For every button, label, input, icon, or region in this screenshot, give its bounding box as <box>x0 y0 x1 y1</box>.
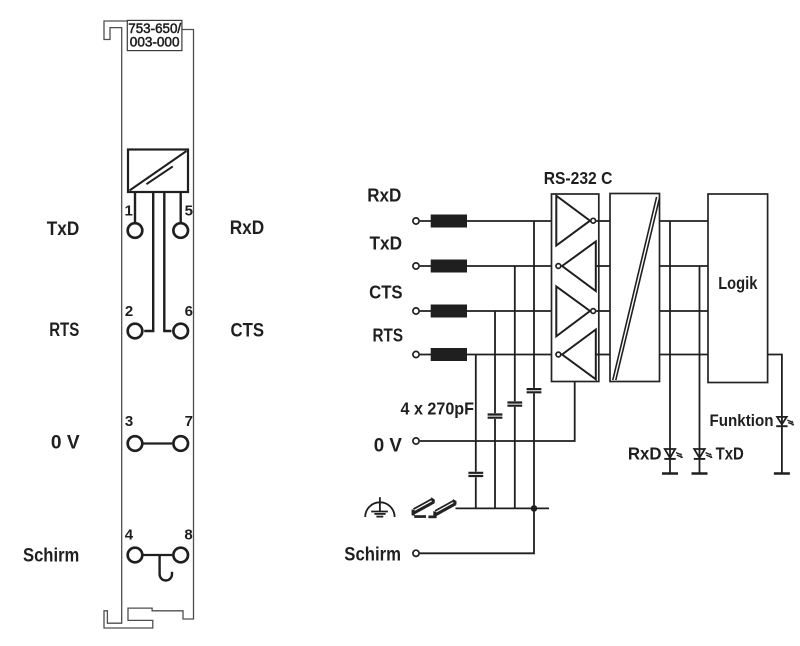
pin 4 <box>128 548 143 563</box>
capacitor C2 <box>507 403 522 406</box>
svg-text:RTS: RTS <box>49 320 79 341</box>
svg-text:RxD: RxD <box>628 444 662 464</box>
wire stem to pin6 <box>164 192 171 331</box>
transformer diagonal short <box>146 166 172 184</box>
isolation diagonal 2 <box>616 199 660 381</box>
isolation box <box>610 194 660 382</box>
transformer diagonal main <box>130 151 187 191</box>
shield hook <box>160 555 172 581</box>
isolation diagonal 1 <box>613 197 657 380</box>
LED RxD <box>662 449 683 474</box>
pin 1 <box>128 223 143 238</box>
module label box <box>127 20 182 50</box>
wire row CTS <box>420 310 557 312</box>
terminal circle Schirm <box>413 550 419 556</box>
terminal circle CTS <box>413 308 419 314</box>
wire stem to pin2 <box>144 192 153 331</box>
svg-text:TxD: TxD <box>47 219 80 240</box>
inverter U1a <box>556 196 590 246</box>
pin 3 <box>128 436 143 451</box>
transformer box (module) <box>128 150 188 193</box>
svg-text:0 V: 0 V <box>374 435 403 456</box>
svg-text:2: 2 <box>125 303 133 320</box>
wire Funktion <box>768 355 782 474</box>
ground symbol <box>365 497 394 517</box>
ground bus wire <box>456 507 550 509</box>
svg-text:RxD: RxD <box>367 185 401 206</box>
capacitor C1 <box>527 389 542 392</box>
svg-text:6: 6 <box>185 303 193 320</box>
wire isolation to Logik row3 <box>660 310 709 312</box>
terminal circle TxD <box>413 263 419 269</box>
svg-text:Schirm: Schirm <box>344 545 401 566</box>
DIN rail icon <box>412 497 457 518</box>
inverter U1b <box>562 242 596 292</box>
svg-text:1: 1 <box>125 202 133 219</box>
wire pin4-pin8 <box>144 554 173 556</box>
resistor R3 <box>431 305 467 318</box>
svg-text:RxD: RxD <box>230 218 265 239</box>
Logik box <box>708 194 768 383</box>
resistor R1 <box>431 215 467 228</box>
wire RS232 to isolation row3 <box>596 310 610 312</box>
svg-text:Funktion: Funktion <box>710 411 774 430</box>
svg-text:3: 3 <box>125 413 133 430</box>
resistor R2 <box>431 260 467 273</box>
module outline <box>104 21 194 628</box>
wire row RxD <box>420 220 557 222</box>
pin 2 <box>128 324 143 339</box>
resistor R4 <box>431 348 467 361</box>
capacitor C4 <box>468 473 483 476</box>
svg-text:CTS: CTS <box>369 282 403 303</box>
wire RS232 to isolation row4 <box>596 354 611 356</box>
LED TxD <box>692 449 713 474</box>
svg-text:0 V: 0 V <box>51 433 80 454</box>
pin 5 <box>173 223 188 238</box>
terminal circle RTS <box>413 351 419 357</box>
wire row TxD <box>420 265 555 267</box>
svg-text:RTS: RTS <box>373 325 404 346</box>
wire LED TxD vertical <box>699 266 701 474</box>
wire isolation to Logik row4 <box>660 354 709 356</box>
wire row RTS <box>420 354 555 356</box>
wire Schirm <box>420 508 534 553</box>
wire isolation to Logik row2 <box>660 265 709 267</box>
inverter U1d <box>562 330 596 380</box>
capacitor line RxD <box>533 221 535 508</box>
capacitor line TxD <box>514 266 516 508</box>
svg-text:TxD: TxD <box>716 444 744 464</box>
svg-text:003-000: 003-000 <box>130 34 180 49</box>
wire 0V <box>420 382 575 442</box>
terminal circle RxD <box>413 218 419 224</box>
svg-text:RS-232 C: RS-232 C <box>544 168 613 188</box>
svg-text:4: 4 <box>125 527 134 544</box>
wire isolation to Logik row1 <box>660 220 709 222</box>
wire RS232 to isolation row2 <box>596 265 611 267</box>
LED Funktion <box>774 417 795 474</box>
terminal circle 0V <box>413 438 419 444</box>
svg-text:7: 7 <box>185 413 193 430</box>
svg-text:TxD: TxD <box>370 233 403 254</box>
svg-text:4 x 270pF: 4 x 270pF <box>401 399 475 419</box>
pin 7 <box>173 436 188 451</box>
capacitor line CTS <box>494 311 496 508</box>
pin 8 <box>173 548 188 563</box>
svg-text:CTS: CTS <box>231 320 265 341</box>
capacitor C3 <box>488 415 503 418</box>
junction dot <box>531 505 538 512</box>
wire LED RxD vertical <box>669 221 671 474</box>
svg-text:8: 8 <box>184 527 192 544</box>
wire stem pin1 <box>134 192 136 223</box>
RS-232 box <box>552 194 599 382</box>
svg-text:5: 5 <box>185 202 193 219</box>
wire pin3-pin7 <box>144 442 173 444</box>
wire RS232 to isolation row1 <box>596 220 610 222</box>
inverter U1c <box>556 287 590 337</box>
wire stem pin5 <box>179 192 181 223</box>
svg-text:Schirm: Schirm <box>23 545 79 566</box>
svg-text:Logik: Logik <box>718 273 757 293</box>
pin 6 <box>173 324 188 339</box>
capacitor line RTS <box>475 355 477 509</box>
